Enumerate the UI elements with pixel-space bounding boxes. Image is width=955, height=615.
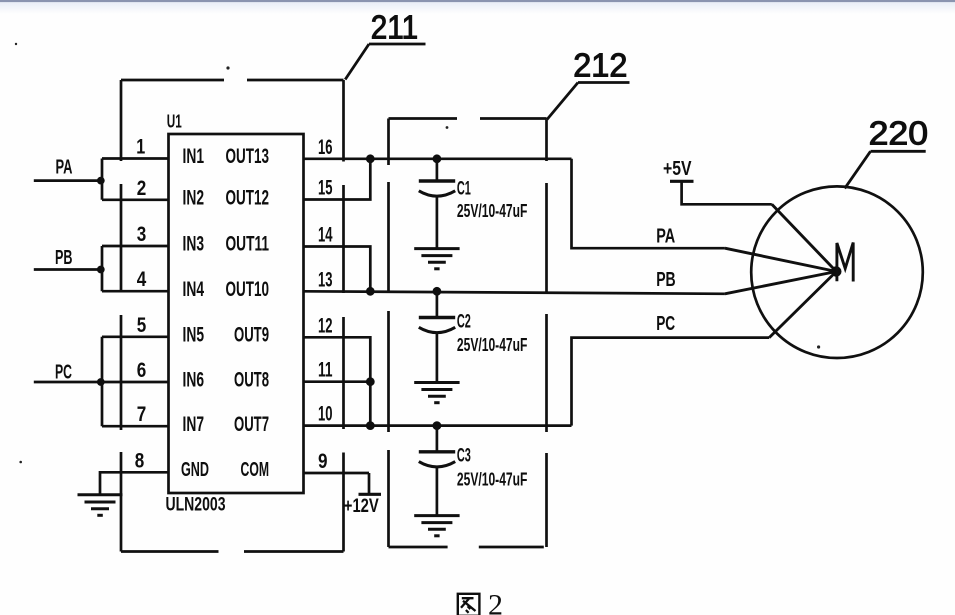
wire pin 13 row to motor PB xyxy=(304,291,725,294)
svg-text:1: 1 xyxy=(136,136,145,159)
junction pin10/C3 xyxy=(433,421,442,430)
wire pin 14 stub tied to pin 13 xyxy=(304,247,371,292)
svg-text:25V/10-47uF: 25V/10-47uF xyxy=(457,334,528,355)
svg-text:25V/10-47uF: 25V/10-47uF xyxy=(457,200,528,221)
svg-text:4: 4 xyxy=(137,268,147,291)
caption: figure number xyxy=(458,594,480,615)
svg-text:PB: PB xyxy=(55,247,73,269)
junction pin13/tie xyxy=(366,287,375,296)
junction PC xyxy=(97,378,105,386)
svg-text:3: 3 xyxy=(137,223,147,246)
motor hub junction xyxy=(831,266,841,276)
svg-text:IN2: IN2 xyxy=(183,187,205,210)
wire pin 10 row xyxy=(304,424,572,427)
node PA (motor side) xyxy=(656,226,675,248)
pin numbers left 1-8 xyxy=(135,136,147,473)
svg-text:C1: C1 xyxy=(457,179,471,200)
svg-text:7: 7 xyxy=(137,403,147,426)
svg-text:6: 6 xyxy=(137,359,147,382)
junction pin11/tie xyxy=(366,377,375,386)
svg-text:OUT12: OUT12 xyxy=(226,187,270,210)
wire PA tie bracket pins 1-2 xyxy=(102,159,169,200)
dashed block 211 (driver stage) xyxy=(121,80,344,552)
svg-text:16: 16 xyxy=(318,136,333,159)
svg-text:PC: PC xyxy=(656,313,675,335)
wire pin 8 to ground xyxy=(100,472,169,494)
junction pin16/tie xyxy=(366,154,375,163)
svg-text:15: 15 xyxy=(318,177,333,200)
junction pin16/C1 xyxy=(433,154,442,163)
svg-text:25V/10-47uF: 25V/10-47uF xyxy=(457,469,528,490)
junction pin13/C2 xyxy=(433,287,442,296)
svg-text:11: 11 xyxy=(318,359,333,382)
svg-text:PA: PA xyxy=(656,226,675,248)
label 220 with leader line xyxy=(845,116,928,189)
svg-text:ULN2003: ULN2003 xyxy=(166,493,226,515)
ground (pin 8) xyxy=(78,495,123,516)
svg-text:GND: GND xyxy=(181,459,209,481)
wire pin 12 stub tied down xyxy=(304,337,371,425)
svg-text:PC: PC xyxy=(55,362,72,384)
ground (C1) xyxy=(414,249,459,269)
motor M mark xyxy=(837,243,853,282)
svg-text:13: 13 xyxy=(318,268,333,291)
wire pin16 row down to motor phase PA xyxy=(572,159,725,248)
node PC input xyxy=(55,362,72,384)
wire PB lead xyxy=(34,268,103,271)
svg-text:+5V: +5V xyxy=(663,158,692,180)
svg-text:C3: C3 xyxy=(457,446,471,467)
motor 220 circle xyxy=(751,186,923,358)
junction PB xyxy=(97,266,105,274)
label 211 with leader line xyxy=(345,10,425,80)
wire PC lead xyxy=(34,381,103,384)
svg-text:U1: U1 xyxy=(167,112,182,132)
svg-text:8: 8 xyxy=(135,449,145,472)
svg-text:COM: COM xyxy=(241,459,270,481)
svg-text:OUT11: OUT11 xyxy=(226,233,270,256)
capacitor C1 xyxy=(419,159,528,249)
wire PA diagonal into motor hub xyxy=(725,248,836,271)
wire PC diagonal into motor hub xyxy=(769,272,836,338)
capacitor C3 xyxy=(419,426,528,516)
wire PC tie bracket pins 5-7 xyxy=(102,337,169,426)
wire PC riser and run to motor xyxy=(572,338,770,426)
wire PA lead xyxy=(34,179,103,182)
capacitor C2 xyxy=(419,291,528,382)
svg-text:211: 211 xyxy=(371,10,418,47)
svg-text:IN1: IN1 xyxy=(183,145,205,168)
svg-text:5: 5 xyxy=(137,314,147,337)
wire pin 16 output row xyxy=(304,157,572,160)
svg-text:2: 2 xyxy=(137,177,147,200)
node PC (motor side) xyxy=(656,313,675,335)
wire pin 15 stub tied to pin 16 xyxy=(304,159,371,200)
junction pin10/tie xyxy=(366,421,375,430)
svg-text:+12V: +12V xyxy=(344,496,379,517)
svg-text:IN3: IN3 xyxy=(183,233,205,256)
IC pin name labels xyxy=(181,145,269,481)
label 212 with leader line xyxy=(547,48,630,120)
svg-text:OUT13: OUT13 xyxy=(226,145,270,168)
node PB (motor side) xyxy=(656,269,676,291)
power +12V xyxy=(344,473,381,517)
node PB input xyxy=(55,247,73,269)
svg-text:PB: PB xyxy=(656,269,676,291)
svg-text:2: 2 xyxy=(488,589,503,615)
pin numbers right 16-9 xyxy=(318,136,333,473)
svg-text:12: 12 xyxy=(318,314,333,337)
node PA input xyxy=(56,157,73,179)
svg-text:OUT8: OUT8 xyxy=(234,369,269,392)
wire pin 11 stub xyxy=(304,380,371,383)
dashed block 212 (filter stage) xyxy=(389,119,547,548)
svg-text:IN6: IN6 xyxy=(183,369,205,392)
ground (C3) xyxy=(414,516,459,536)
wire PB diagonal into motor hub xyxy=(725,272,836,294)
scan specks xyxy=(15,43,820,464)
wire pin 9 stub xyxy=(304,472,370,475)
svg-text:C2: C2 xyxy=(457,311,471,332)
svg-text:OUT9: OUT9 xyxy=(234,324,269,347)
svg-text:220: 220 xyxy=(869,116,929,153)
svg-text:IN7: IN7 xyxy=(183,413,205,436)
svg-text:IN4: IN4 xyxy=(183,278,205,301)
svg-text:14: 14 xyxy=(318,224,333,247)
svg-text:212: 212 xyxy=(573,48,627,85)
svg-text:PA: PA xyxy=(56,157,73,179)
ground (C2) xyxy=(414,383,459,403)
wire PB tie bracket pins 3-4 xyxy=(102,246,169,291)
svg-text:OUT7: OUT7 xyxy=(234,413,269,436)
svg-text:IN5: IN5 xyxy=(183,324,205,347)
header rule xyxy=(0,0,955,2)
wire +5V diagonal into motor hub xyxy=(772,204,837,271)
svg-text:10: 10 xyxy=(318,403,333,426)
junction PA xyxy=(97,177,105,185)
svg-text:9: 9 xyxy=(318,450,328,473)
svg-text:OUT10: OUT10 xyxy=(226,278,270,301)
IC U1 ULN2003 body xyxy=(169,134,304,493)
power +5V xyxy=(663,158,772,204)
